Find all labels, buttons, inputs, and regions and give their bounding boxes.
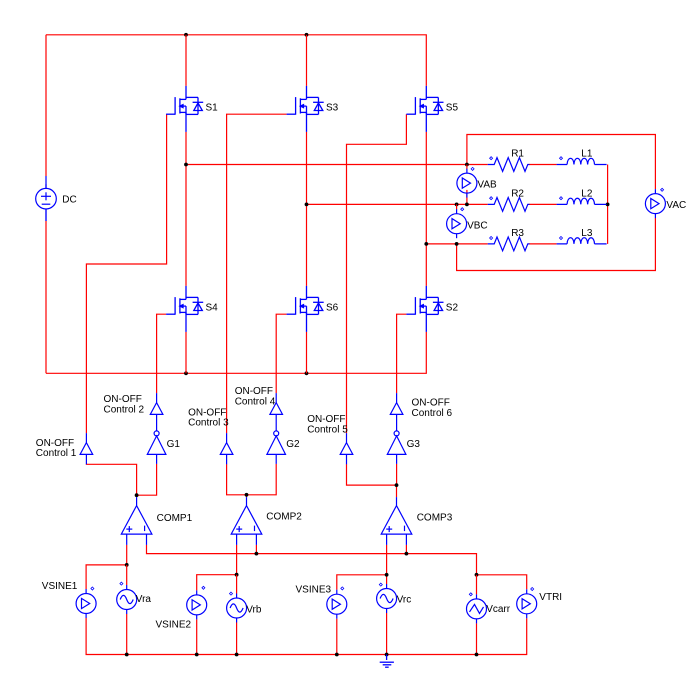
junction S4 source on bottom rail	[184, 371, 188, 375]
wire VAB top lead	[466, 165, 468, 170]
junction Vrc top node	[385, 573, 389, 577]
resistor R1	[488, 158, 530, 172]
wire Vrc bottom lead	[386, 613, 388, 655]
svg-text:S1: S1	[206, 103, 219, 114]
source VSINE3	[327, 590, 347, 619]
junction VAB top / node A	[465, 163, 469, 167]
svg-text:S4: S4	[206, 303, 219, 314]
junction node A	[184, 163, 188, 167]
buffer ON-OFF Control 4	[270, 393, 283, 431]
transistor S6	[287, 286, 324, 332]
junction comp3 minus on bus	[405, 552, 409, 556]
wire VBC top lead	[456, 204, 458, 209]
junction Vrb top node	[235, 573, 239, 577]
wire neutral vertical	[607, 165, 609, 244]
junction Vra top node	[125, 563, 129, 567]
wire comp1 minus to carrier bus	[147, 545, 477, 575]
wire S2 gate to ON-OFF control 6	[397, 314, 407, 393]
wire Vrb top lead	[236, 575, 238, 594]
svg-text:ON-OFF: ON-OFF	[104, 394, 142, 405]
svg-text:R1: R1	[511, 149, 524, 160]
inverter G2	[267, 431, 286, 464]
junction comp1 output node	[135, 493, 139, 497]
wire S6 source to rail	[306, 332, 308, 373]
svg-text:DC: DC	[62, 194, 76, 205]
dc source DC	[36, 184, 57, 221]
junction S6 source on bottom rail	[305, 371, 309, 375]
wire S6 drain from node B	[306, 204, 308, 286]
buffer ON-OFF Control 3	[220, 433, 233, 464]
svg-text:COMP2: COMP2	[266, 512, 302, 523]
svg-text:R2: R2	[511, 188, 524, 199]
wire control1 output down to comp1 node	[86, 464, 136, 497]
buffer ON-OFF Control 6	[390, 393, 403, 431]
wire comp2 minus to carrier bus	[255, 545, 257, 554]
wire VSINE2 to Vrb top	[197, 575, 237, 591]
svg-text:G1: G1	[167, 439, 181, 450]
component lead tints	[45, 176, 47, 221]
wire S4 drain from node A	[185, 165, 187, 286]
wire VSINE1 to Vra top	[86, 565, 127, 589]
wire S1 gate to ON-OFF control 1	[86, 114, 166, 433]
wire G3 input down	[396, 464, 398, 485]
wire DC source top lead	[45, 35, 47, 176]
ground	[380, 655, 394, 668]
inductor L1	[557, 158, 607, 164]
svg-text:COMP1: COMP1	[157, 513, 193, 524]
buffer ON-OFF Control 5	[340, 433, 353, 464]
svg-text:VSINE2: VSINE2	[156, 619, 192, 630]
junction Vra bottom	[125, 653, 129, 657]
junction node C	[424, 242, 428, 246]
svg-text:VAB: VAB	[477, 180, 497, 191]
inverter G3	[387, 431, 406, 464]
svg-text:Control 3: Control 3	[188, 418, 229, 429]
svg-text:ON-OFF: ON-OFF	[307, 414, 345, 425]
svg-text:VSINE1: VSINE1	[42, 581, 78, 592]
svg-text:Vrb: Vrb	[246, 604, 262, 615]
inductor L2	[557, 198, 607, 204]
svg-text:Control 6: Control 6	[412, 408, 453, 419]
svg-text:Control 1: Control 1	[36, 448, 77, 459]
svg-text:VBC: VBC	[467, 220, 488, 231]
wire Vra bottom lead	[126, 614, 128, 655]
wire node C row to load	[426, 243, 487, 245]
junction VBC bottom on row C	[455, 242, 459, 246]
junction VAB bottom on row B	[465, 203, 469, 207]
wire S3 gate to ON-OFF control 3	[227, 114, 287, 433]
wire S1 drain	[185, 35, 187, 86]
wire signal ground rail	[86, 618, 527, 655]
svg-text:Control 2: Control 2	[104, 404, 145, 415]
junction VBC top on row B	[455, 203, 459, 207]
source Vra	[117, 585, 137, 614]
svg-text:ON-OFF: ON-OFF	[412, 397, 450, 408]
svg-text:Vra: Vra	[136, 594, 152, 605]
wire comp3 plus input to Vrc node	[386, 545, 388, 584]
svg-text:S3: S3	[326, 103, 339, 114]
wire R3-L3 link	[529, 243, 556, 245]
junction neutral point	[606, 203, 610, 207]
svg-text:Control 4: Control 4	[235, 396, 276, 407]
voltmeter VAC	[645, 189, 665, 218]
wire VSINE3 to Vrc top	[337, 575, 387, 590]
svg-text:S5: S5	[446, 103, 459, 114]
wire S4 source to rail	[185, 332, 187, 373]
voltmeter VAB	[457, 169, 477, 198]
polarity marks	[490, 157, 493, 160]
comparator COMP3	[381, 497, 412, 545]
wire S1 source to node A	[185, 132, 187, 165]
junction comp3 output node	[395, 483, 399, 487]
junction Vrb bottom	[235, 653, 239, 657]
junction Vrc bottom / ground tap	[385, 653, 389, 657]
wire VSINE3 bottom lead	[336, 619, 338, 655]
junction S3 drain on top rail	[305, 33, 309, 37]
svg-text:G3: G3	[407, 439, 421, 450]
svg-text:S6: S6	[326, 303, 339, 314]
svg-text:S2: S2	[446, 303, 459, 314]
transistor S1	[166, 86, 203, 132]
svg-text:L1: L1	[581, 149, 593, 160]
junction VSINE2 bottom	[195, 653, 199, 657]
svg-text:VAC: VAC	[666, 200, 686, 211]
svg-text:VTRI: VTRI	[539, 592, 562, 603]
comparator COMP1	[121, 497, 152, 545]
source VSINE1	[76, 589, 96, 618]
resistor R2	[488, 198, 530, 212]
voltmeter VBC	[447, 209, 467, 238]
wire comp2 output up	[246, 495, 248, 497]
source Vcarr	[467, 594, 487, 623]
svg-text:L3: L3	[581, 228, 593, 239]
svg-text:Control 5: Control 5	[307, 424, 348, 435]
inductor L3	[557, 238, 607, 244]
wire Vcarr bottom lead	[476, 623, 478, 654]
wire node A row to load	[186, 164, 488, 166]
wire S3 source to node B	[306, 132, 308, 205]
wire S3 drain	[306, 35, 308, 86]
source VSINE2	[187, 590, 207, 619]
svg-text:R3: R3	[511, 228, 524, 239]
wire S6 gate to ON-OFF control 4	[276, 314, 286, 393]
transistor S3	[287, 86, 324, 132]
wire control5 input down to comp3 node	[347, 464, 397, 485]
inverter G1	[147, 431, 166, 464]
source Vrc	[377, 584, 397, 613]
wire comp3 minus to carrier bus	[405, 545, 407, 554]
junction comp2 minus on bus	[255, 552, 259, 556]
junction comp2 output node	[245, 493, 249, 497]
source VTRI	[517, 589, 537, 618]
wire DC+ top rail	[46, 35, 426, 86]
junction S1 drain on top rail	[184, 33, 188, 37]
wire R1-L1 link	[529, 164, 556, 166]
wire DC source bottom lead	[45, 221, 47, 373]
wire G1 input from comp1 node	[137, 464, 157, 495]
wire node B row to load	[307, 203, 488, 205]
wire VAB bottom lead	[466, 190, 468, 205]
wire Vrb bottom lead	[236, 623, 238, 655]
wire VSINE2 bottom lead	[196, 619, 198, 654]
wire control3 input down to comp2 node	[227, 464, 277, 495]
wire VAC bottom frame	[457, 218, 656, 271]
resistor R3	[488, 237, 530, 251]
wire comp1 plus input to Vra node	[126, 545, 128, 565]
wire comp2 plus input to Vrb node	[236, 545, 238, 575]
wire S4 gate to ON-OFF control 2	[157, 314, 167, 393]
junction VSINE3 bottom	[335, 653, 339, 657]
wire Vcarr top lead	[476, 575, 478, 595]
wire S2 drain from node C	[425, 244, 427, 286]
transistor S4	[166, 286, 203, 332]
comparator COMP2	[231, 497, 262, 545]
wire S5 source to node C	[425, 132, 427, 244]
svg-text:ON-OFF: ON-OFF	[36, 438, 74, 449]
svg-text:Vrc: Vrc	[397, 595, 412, 606]
wire Vra top lead	[126, 565, 128, 585]
wire S5 gate to ON-OFF control 5	[347, 114, 407, 433]
wire R2-L2 link	[529, 203, 556, 205]
junction node B	[305, 203, 309, 207]
wire VAB/VAC top frame	[467, 135, 656, 190]
wire comp3 output up	[396, 485, 398, 497]
junction Vcarr bottom	[475, 653, 479, 657]
wire DC- bottom rail	[46, 332, 426, 373]
svg-text:COMP3: COMP3	[417, 513, 453, 524]
svg-text:VSINE3: VSINE3	[296, 585, 332, 596]
svg-text:Vcarr: Vcarr	[486, 604, 511, 615]
transistor S2	[406, 286, 443, 332]
buffer ON-OFF Control 1	[80, 433, 93, 464]
wire Vcarr top node to VTRI	[477, 575, 527, 590]
buffer ON-OFF Control 2	[150, 393, 163, 431]
svg-text:L2: L2	[581, 188, 593, 199]
source Vrb	[227, 594, 247, 623]
svg-text:G2: G2	[286, 439, 300, 450]
junction Vcarr top node	[475, 573, 479, 577]
transistor S5	[406, 86, 443, 132]
